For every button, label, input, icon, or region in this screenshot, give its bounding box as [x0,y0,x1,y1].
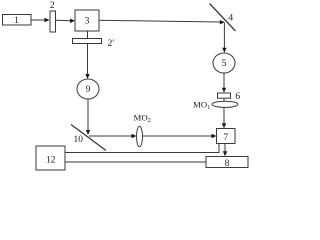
svg-text:MO2: MO2 [134,113,151,125]
svg-text:5: 5 [222,59,227,69]
svg-text:MO1: MO1 [193,100,210,112]
svg-text:9: 9 [86,85,91,95]
svg-text:2′: 2′ [108,39,115,49]
svg-text:1: 1 [14,16,19,26]
svg-text:6: 6 [235,92,240,102]
svg-text:8: 8 [225,159,230,169]
svg-text:7: 7 [223,133,228,143]
svg-text:3: 3 [85,17,90,27]
svg-text:12: 12 [46,155,56,165]
svg-text:4: 4 [228,14,233,24]
svg-text:2: 2 [50,1,55,11]
svg-text:10: 10 [74,135,84,145]
